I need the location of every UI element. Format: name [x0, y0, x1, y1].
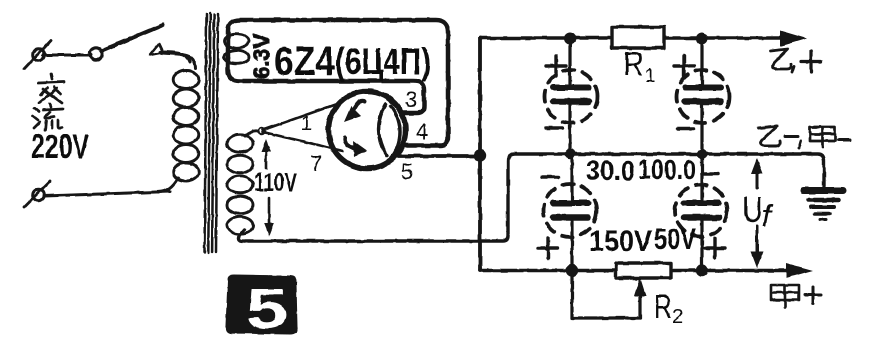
label tube type 6Z4(6Ц4П) — [274, 38, 431, 84]
terminal T1 (AC input top) — [24, 40, 51, 69]
tube V1 envelope — [329, 92, 406, 169]
resistor R1 — [612, 27, 664, 48]
svg-text:30.0: 30.0 — [586, 155, 635, 186]
polarity + C4 — [705, 238, 725, 258]
svg-text:(6Ц4П): (6Ц4П) — [335, 41, 431, 82]
capacitor C2 (100µF 50V) — [677, 38, 730, 154]
wire T2 to primary winding bottom — [44, 192, 170, 197]
wire: bottom rail — [480, 269, 792, 273]
polarity − C4 — [702, 172, 718, 176]
svg-text:1: 1 — [301, 113, 312, 135]
svg-text:U: U — [742, 189, 763, 230]
svg-text:2: 2 — [672, 306, 683, 328]
ground — [804, 191, 843, 220]
tube anode (top diode plate) — [344, 101, 364, 122]
polarity + C2 — [674, 56, 694, 76]
wire: rectifier output vertical bus — [478, 38, 482, 271]
node: secondary tap — [259, 128, 265, 134]
svg-text:7: 7 — [310, 151, 322, 176]
polarity − C3 — [542, 175, 558, 179]
svg-text:6.3V: 6.3V — [249, 33, 274, 79]
label 乙−,甲− — [758, 126, 850, 148]
capacitor C1 (30µF 150V) — [545, 38, 598, 154]
figure number 5 — [227, 276, 296, 341]
capacitor C4 (100µF 50V lower) — [675, 154, 727, 270]
wire: secondary return to middle rail and ground corner — [239, 154, 824, 241]
capacitor C3 (30µF 150V lower) — [544, 154, 597, 270]
junction: pin5 wire to bus — [474, 149, 486, 161]
switch S1 blade — [101, 25, 163, 51]
polarity − C1 — [546, 126, 562, 130]
wire: tap to pin 1 — [263, 103, 341, 131]
arrow: 甲+ output — [786, 263, 813, 278]
svg-text:R: R — [623, 45, 644, 82]
dimension arrow Uf — [751, 158, 763, 268]
label 乙,+ — [770, 49, 821, 72]
transformer primary winding 220V — [158, 52, 199, 192]
svg-text:4: 4 — [416, 119, 428, 144]
arrow: 乙+ output — [780, 31, 807, 47]
transformer core — [205, 13, 219, 253]
label R1 — [623, 45, 656, 87]
polarity − C2 — [678, 127, 694, 131]
junction dot top rail C1 — [564, 33, 576, 45]
arrow: wiper to R2 — [634, 277, 646, 318]
wire: R2 wiper feedback — [572, 270, 640, 318]
svg-text:R: R — [654, 288, 672, 325]
label Uf — [742, 189, 774, 233]
svg-text:1: 1 — [645, 66, 656, 87]
wire: heater loop outer (pin 4) and inner (pin 3) — [228, 20, 448, 146]
label R2 — [654, 288, 683, 328]
svg-text:5: 5 — [246, 277, 288, 341]
junction dot bottom rail C4 — [696, 264, 708, 276]
junction dot top rail C2 — [696, 33, 708, 45]
transformer heater winding 6.3V — [224, 34, 249, 64]
wire contact to primary winding top — [162, 53, 195, 68]
svg-text:50V: 50V — [654, 223, 696, 256]
wire: cathode pin 5 to bus — [396, 154, 478, 158]
switch fixed contact — [150, 44, 163, 55]
terminal T2 (AC input bottom) — [24, 181, 50, 207]
wire: tap to pin 7 — [263, 132, 343, 151]
junction dot bottom rail C3 — [566, 264, 578, 276]
tube anode (bottom diode plate) — [345, 138, 367, 157]
transformer secondary winding 110V — [227, 131, 258, 234]
switch S1 pivot — [90, 48, 102, 60]
wire: top rail — [480, 36, 786, 40]
label 110V with dimension arrows — [254, 139, 297, 236]
svg-text:100.0: 100.0 — [638, 154, 696, 185]
label 甲+ — [771, 285, 821, 307]
svg-text:f: f — [762, 198, 774, 233]
svg-text:3: 3 — [405, 87, 417, 112]
tube cathode arcs — [379, 104, 400, 158]
svg-text:6Z4: 6Z4 — [274, 38, 335, 84]
polarity + C3 — [538, 238, 558, 258]
label 交流 220V — [31, 74, 89, 166]
svg-text:110V: 110V — [254, 167, 297, 197]
wire T1 to switch pivot — [43, 54, 91, 57]
polarity + C1 — [546, 56, 566, 76]
resistor R2 — [616, 263, 671, 278]
junction dot middle rail C2 — [697, 149, 707, 159]
svg-text:5: 5 — [401, 159, 413, 184]
svg-text:150V: 150V — [589, 225, 652, 258]
svg-text:220V: 220V — [31, 128, 89, 166]
junction dot middle rail C1 — [565, 149, 575, 159]
